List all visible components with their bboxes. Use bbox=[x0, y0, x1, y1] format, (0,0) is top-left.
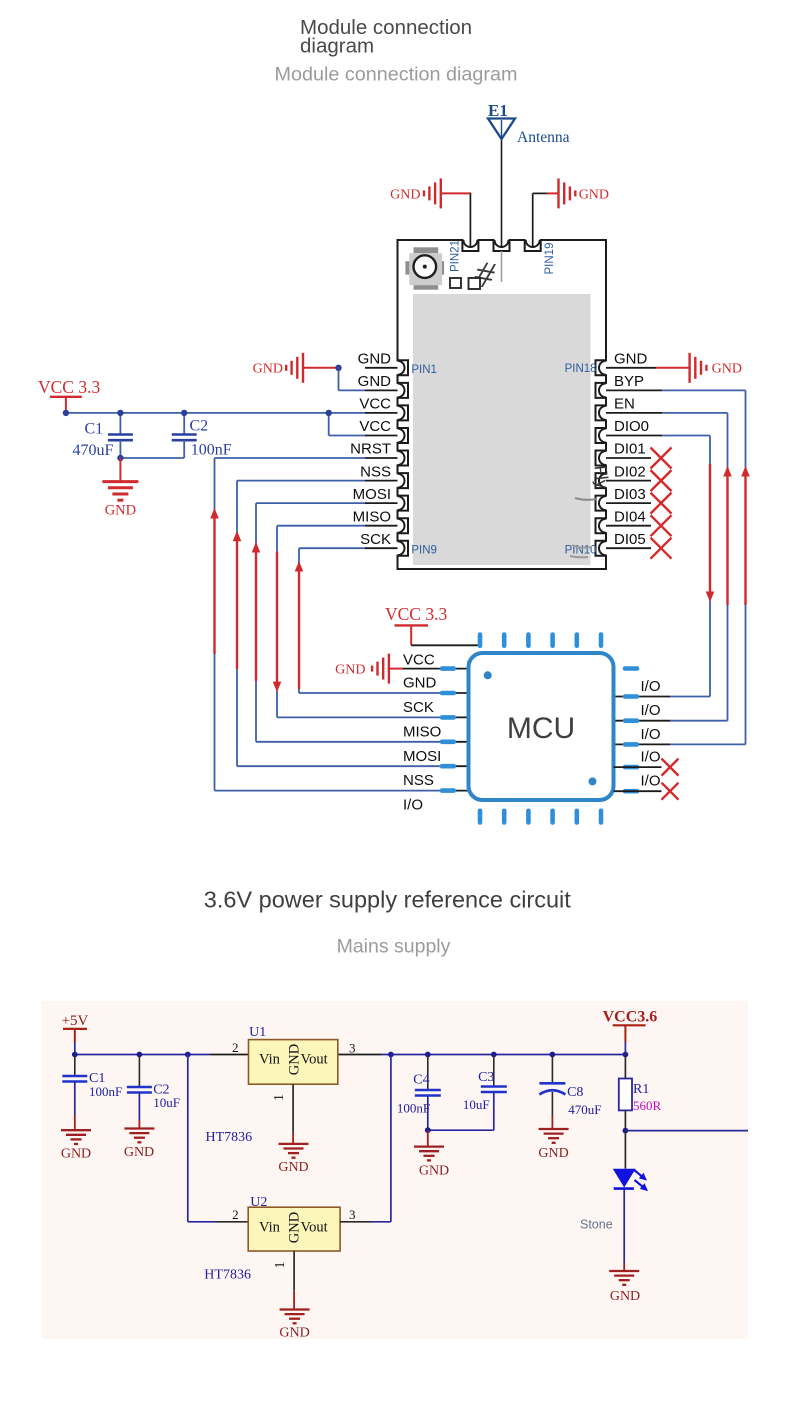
ground (LED) bbox=[609, 1271, 640, 1304]
svg-text:SCK: SCK bbox=[403, 699, 434, 716]
wire U2 pin3 to node bbox=[340, 1055, 391, 1222]
wire EN to MCU I/O2 bbox=[606, 413, 728, 721]
svg-text:EN: EN bbox=[614, 396, 635, 413]
ground (antenna right GND) bbox=[533, 178, 609, 246]
svg-text:GND: GND bbox=[614, 351, 648, 368]
svg-text:I/O: I/O bbox=[641, 702, 661, 719]
svg-text:10uF: 10uF bbox=[463, 1097, 490, 1112]
ground (U1) bbox=[278, 1144, 308, 1175]
wire +5V rail bbox=[75, 1054, 626, 1056]
arrow up (MOSI line) bbox=[252, 542, 261, 553]
svg-text:470uF: 470uF bbox=[568, 1102, 601, 1117]
wire BYP to MCU I/O3 bbox=[606, 390, 746, 744]
svg-text:GND: GND bbox=[610, 1289, 640, 1304]
svg-text:GND: GND bbox=[579, 188, 609, 203]
wire MOSI to MCU MOSI bbox=[256, 503, 469, 742]
wire SCK to MCU SCK bbox=[299, 548, 469, 693]
MCU left pin dashes bbox=[442, 669, 454, 791]
svg-text:DI01: DI01 bbox=[614, 441, 646, 458]
IPEX antenna connector bbox=[405, 247, 444, 289]
svg-text:I/O: I/O bbox=[641, 749, 661, 766]
node rail junction x=625.4 bbox=[623, 1052, 629, 1058]
svg-text:I/O: I/O bbox=[641, 773, 661, 790]
wire MISO to MCU MISO bbox=[277, 526, 469, 718]
power VCC3.6 bbox=[603, 1009, 658, 1055]
svg-text:DI02: DI02 bbox=[614, 463, 646, 480]
node VCC rail dot bbox=[63, 410, 69, 416]
svg-text:100nF: 100nF bbox=[191, 441, 232, 458]
svg-text:MISO: MISO bbox=[353, 508, 391, 525]
svg-text:2: 2 bbox=[232, 1040, 239, 1055]
wire U1 pin1 bbox=[272, 1084, 293, 1143]
wire NRST to MCU I/O bbox=[215, 458, 469, 791]
svg-text:PIN9: PIN9 bbox=[411, 545, 437, 557]
MCU top pin dashes bbox=[480, 635, 601, 646]
svg-text:100nF: 100nF bbox=[397, 1101, 430, 1116]
svg-text:GND: GND bbox=[358, 373, 392, 390]
svg-text:Mains supply: Mains supply bbox=[337, 936, 451, 958]
ground (antenna left GND) bbox=[390, 178, 471, 208]
wire DI04 stub with no-connect X bbox=[606, 515, 672, 536]
svg-text:NRST: NRST bbox=[350, 441, 391, 458]
svg-text:MISO: MISO bbox=[403, 723, 441, 740]
svg-text:GND: GND bbox=[390, 188, 420, 203]
regulator U1 HT7836 bbox=[232, 1025, 356, 1084]
wire DI05 stub with no-connect X bbox=[606, 538, 672, 559]
wire DI02 stub with no-connect X bbox=[606, 470, 672, 491]
svg-text:DIO0: DIO0 bbox=[614, 418, 649, 435]
svg-text:Antenna: Antenna bbox=[517, 129, 570, 146]
svg-text:C2: C2 bbox=[190, 418, 209, 435]
svg-text:DI05: DI05 bbox=[614, 531, 646, 548]
svg-text:NSS: NSS bbox=[403, 772, 434, 789]
LED D1 bbox=[613, 1131, 648, 1192]
wire MCU VCC pin bbox=[411, 644, 479, 646]
MCU right I/O wires 4,5 with no-connect bbox=[614, 759, 679, 800]
svg-text:MCU: MCU bbox=[507, 712, 575, 745]
subtitle: Module connection diagram bbox=[274, 64, 517, 86]
svg-text:PIN18: PIN18 bbox=[565, 363, 597, 375]
ground (C2 supply) bbox=[124, 1129, 155, 1161]
node rail junction x=139.4 bbox=[137, 1052, 143, 1058]
MCU U2 body bbox=[469, 653, 614, 800]
svg-text:HT7836: HT7836 bbox=[204, 1268, 251, 1283]
svg-text:GND: GND bbox=[279, 1326, 309, 1341]
node rail junction x=390.9 bbox=[388, 1052, 394, 1058]
svg-text:VCC 3.3: VCC 3.3 bbox=[38, 377, 100, 397]
capacitor C1 470uF bbox=[73, 413, 133, 459]
wire rail to U2 Vin bbox=[188, 1055, 248, 1222]
svg-text:560R: 560R bbox=[633, 1098, 662, 1113]
wire output to panel edge bbox=[625, 1130, 748, 1132]
node rail junction x=493.8 bbox=[491, 1052, 497, 1058]
node C4 C3 junction bbox=[425, 1127, 431, 1133]
svg-text:BYP: BYP bbox=[614, 373, 644, 390]
arrow up (EN line) bbox=[723, 466, 732, 477]
node rail junction x=427.8 bbox=[425, 1052, 431, 1058]
svg-text:DI04: DI04 bbox=[614, 508, 646, 525]
wire U2 pin1 bbox=[273, 1251, 294, 1310]
svg-text:VCC: VCC bbox=[359, 396, 391, 413]
wire VCC2 branch bbox=[329, 413, 365, 436]
wire DI01 stub with no-connect X bbox=[606, 448, 672, 469]
svg-text:Vout: Vout bbox=[301, 1220, 328, 1236]
svg-text:GND: GND bbox=[712, 362, 742, 377]
svg-text:GND: GND bbox=[358, 351, 392, 368]
arrow up (NSS line) bbox=[233, 531, 242, 542]
wire GND1 junction to pin2 bbox=[339, 368, 366, 391]
svg-text:C8: C8 bbox=[567, 1085, 583, 1100]
svg-text:MOSI: MOSI bbox=[403, 748, 441, 765]
svg-text:GND: GND bbox=[403, 675, 437, 692]
resistor R1 560R bbox=[619, 1055, 662, 1131]
ground (C4 C3) bbox=[414, 1130, 449, 1178]
wire VCC rail bbox=[66, 412, 365, 414]
power VCC 3.3 (top-left) bbox=[38, 377, 100, 413]
capacitor C1 100nF (supply) bbox=[62, 1055, 122, 1131]
node junction GND1 bbox=[335, 365, 341, 371]
node C1 top dot bbox=[117, 410, 123, 416]
node C2 top dot bbox=[181, 410, 187, 416]
small pad squares bbox=[450, 278, 480, 289]
ground (C1 C2 earth) bbox=[102, 458, 138, 519]
ground (module right GND pin) bbox=[606, 353, 742, 383]
watermark bbox=[570, 464, 613, 557]
ground (MCU GND pin) bbox=[335, 654, 468, 684]
node rail junction x=74.8 bbox=[72, 1052, 78, 1058]
wire DIO0 to MCU I/O1 bbox=[606, 436, 710, 697]
svg-text:PIN19: PIN19 bbox=[544, 243, 556, 275]
svg-text:HT7836: HT7836 bbox=[206, 1130, 253, 1145]
ground (module left GND pin) bbox=[253, 353, 339, 383]
power VCC 3.3 (MCU) bbox=[385, 604, 447, 645]
svg-text:VCC 3.3: VCC 3.3 bbox=[385, 604, 447, 624]
svg-text:VCC: VCC bbox=[359, 418, 391, 435]
arrow up (BYP line) bbox=[741, 466, 750, 477]
MCU bottom pin dashes bbox=[480, 811, 601, 823]
antenna E1 bbox=[488, 101, 570, 247]
svg-text:C1: C1 bbox=[85, 421, 104, 438]
node rail junction x=552.4 bbox=[550, 1052, 556, 1058]
svg-text:GND: GND bbox=[124, 1145, 154, 1160]
svg-text:I/O: I/O bbox=[641, 678, 661, 695]
svg-text:VCC: VCC bbox=[403, 651, 435, 668]
svg-text:GND: GND bbox=[253, 362, 283, 377]
svg-text:100nF: 100nF bbox=[89, 1084, 122, 1099]
svg-text:VCC3.6: VCC3.6 bbox=[603, 1009, 658, 1026]
svg-text:3: 3 bbox=[349, 1041, 356, 1056]
svg-text:1: 1 bbox=[273, 1262, 288, 1269]
capacitor C8 470uF (polarized) bbox=[539, 1055, 601, 1130]
node rail junction x=187.8 bbox=[185, 1052, 191, 1058]
svg-text:470uF: 470uF bbox=[73, 442, 114, 459]
svg-text:C3: C3 bbox=[478, 1070, 494, 1085]
svg-text:R1: R1 bbox=[633, 1082, 649, 1097]
svg-text:Stone: Stone bbox=[580, 1218, 613, 1232]
svg-text:diagram: diagram bbox=[300, 35, 374, 58]
title: Module connection diagram bbox=[300, 16, 472, 58]
svg-text:C4: C4 bbox=[413, 1072, 429, 1087]
wire cap bottom rail bbox=[120, 457, 184, 459]
svg-text:GND: GND bbox=[105, 503, 136, 519]
node R1 output junction bbox=[623, 1128, 629, 1134]
svg-text:I/O: I/O bbox=[403, 797, 423, 814]
arrow up (SCK line) bbox=[295, 561, 304, 572]
svg-text:PIN1: PIN1 bbox=[411, 364, 437, 376]
ground (U2) bbox=[279, 1310, 309, 1341]
svg-text:+5V: +5V bbox=[62, 1013, 89, 1029]
wire LED to ground bbox=[623, 1189, 625, 1271]
capacitor C3 10uF bbox=[463, 1055, 507, 1131]
svg-text:Vin: Vin bbox=[259, 1220, 281, 1236]
power supply panel background bbox=[41, 1001, 748, 1339]
svg-text:SCK: SCK bbox=[360, 531, 391, 548]
capacitor C2 100nF bbox=[172, 413, 232, 459]
svg-text:E1: E1 bbox=[488, 101, 508, 120]
svg-text:3.6V power supply reference ci: 3.6V power supply reference circuit bbox=[204, 887, 572, 913]
ground (C1 supply) bbox=[61, 1130, 91, 1161]
svg-text:GND: GND bbox=[61, 1147, 91, 1162]
svg-text:1: 1 bbox=[272, 1094, 287, 1101]
svg-text:Module connection diagram: Module connection diagram bbox=[274, 64, 517, 86]
antenna trace mark bbox=[471, 251, 501, 298]
svg-text:10uF: 10uF bbox=[153, 1095, 180, 1110]
svg-text:GND: GND bbox=[278, 1160, 308, 1175]
power +5V bbox=[62, 1013, 89, 1055]
wire NSS to MCU NSS bbox=[237, 481, 469, 767]
svg-text:NSS: NSS bbox=[360, 463, 391, 480]
svg-text:GND: GND bbox=[419, 1164, 449, 1179]
svg-text:DI03: DI03 bbox=[614, 486, 646, 503]
capacitor C4 100nF bbox=[397, 1055, 441, 1131]
ground (C8) bbox=[538, 1129, 568, 1161]
svg-text:2: 2 bbox=[232, 1207, 239, 1222]
arrow up (NRST line) bbox=[210, 508, 219, 519]
svg-text:GND: GND bbox=[538, 1146, 568, 1161]
module left pin stubs bbox=[365, 368, 398, 548]
svg-text:Vout: Vout bbox=[301, 1052, 328, 1068]
svg-text:Vin: Vin bbox=[259, 1052, 281, 1068]
svg-text:PIN21: PIN21 bbox=[450, 240, 462, 272]
svg-text:3: 3 bbox=[349, 1207, 356, 1222]
svg-text:#: # bbox=[471, 253, 498, 298]
module U-RF body bbox=[398, 240, 607, 569]
svg-text:I/O: I/O bbox=[641, 726, 661, 743]
wire C3 bottom to C4 junction bbox=[428, 1129, 494, 1131]
arrow down (MISO line) bbox=[273, 682, 282, 693]
wire antenna-left gnd to PIN21 bbox=[469, 193, 471, 246]
svg-text:GND: GND bbox=[335, 663, 365, 678]
regulator U2 HT7836 bbox=[232, 1195, 355, 1251]
svg-text:Fly: Fly bbox=[591, 464, 613, 490]
MCU right pin dashes bbox=[625, 669, 637, 792]
wire DI03 stub with no-connect X bbox=[606, 493, 672, 514]
svg-text:U1: U1 bbox=[249, 1025, 266, 1040]
node cap bottom dot bbox=[117, 455, 123, 461]
arrow down (DIO0 line) bbox=[706, 592, 715, 603]
svg-text:MOSI: MOSI bbox=[353, 486, 391, 503]
capacitor C2 10uF (supply) bbox=[127, 1055, 180, 1129]
node VCC2 branch dot bbox=[326, 410, 332, 416]
